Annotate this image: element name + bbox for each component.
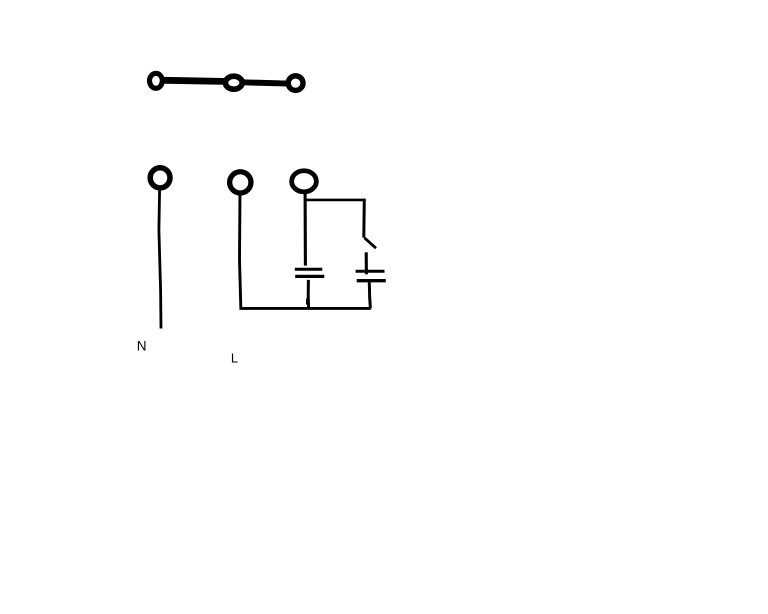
wire bottom return bus from L to C2 xyxy=(239,307,370,310)
wire neutral lead from terminal N xyxy=(159,189,161,329)
wire capacitor C1 bottom lead xyxy=(307,280,310,309)
terminal L (lower middle) xyxy=(230,172,251,193)
wire switch S1 upper lead (vertical) xyxy=(362,199,366,238)
wire lead from terminal T4 down to capacitor C1 xyxy=(304,190,307,266)
wire switch S1 lower lead to capacitor C2 xyxy=(365,252,368,274)
switch S1 blade (open contact) xyxy=(364,238,376,248)
wire bus link terminal T1 to T2 xyxy=(158,80,230,81)
junction nub on C1 lead xyxy=(306,299,308,305)
svg-text:L: L xyxy=(231,351,238,366)
terminal T4 (lower right) xyxy=(292,171,317,192)
terminal T2 (top strip middle) xyxy=(225,76,242,89)
svg-text:N: N xyxy=(137,338,147,353)
wire live lead down from terminal L xyxy=(240,191,241,307)
capacitor C2 top plate xyxy=(356,270,385,273)
terminal T1 (top strip left) xyxy=(150,73,163,88)
capacitor C2 bottom plate xyxy=(357,279,386,282)
wire capacitor C2 bottom lead xyxy=(369,282,370,308)
terminal T3 (top strip right) xyxy=(288,76,303,91)
capacitor C1 bottom plate xyxy=(295,275,324,278)
wire branch from node A to switch S1 (horizontal) xyxy=(305,199,364,202)
capacitor C1 top plate xyxy=(295,268,323,271)
terminal N (lower left) xyxy=(150,168,170,188)
wire bus link terminal T2 to T3 xyxy=(238,82,293,84)
